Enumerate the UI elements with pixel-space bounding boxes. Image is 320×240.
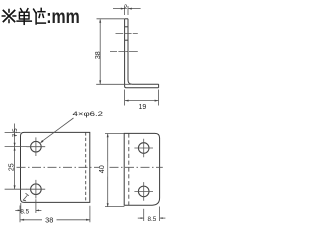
right plate outline [124,133,159,205]
svg-text:4×φ6.2: 4×φ6.2 [73,111,104,118]
corner radius callout [23,195,27,200]
shared horizontal centerline [17,166,163,168]
svg-text:8.5: 8.5 [148,216,157,223]
kome mark ※ [3,11,14,22]
kanji 単 [17,9,31,25]
left plate bend hidden line (dashed) [85,132,87,202]
dimension 38 bottom [20,206,90,223]
dimension 19 (depth) [125,90,159,106]
hole L2 crosshair [27,180,46,199]
svg-text:7.5: 7.5 [12,128,19,137]
side view: hole hidden edge tick upper [125,26,128,28]
svg-text:38: 38 [45,216,53,225]
svg-text:2: 2 [124,4,128,11]
dimension 38 (height) [96,19,131,85]
dimension 8.5 right [138,207,166,222]
svg-text::mm: :mm [46,7,79,28]
hole R2 [138,186,149,197]
hole L1 crosshair [27,137,46,156]
dimension 8.5 left [15,199,41,213]
hole L2 [31,184,42,195]
side view: top cap of vertical leg [125,18,128,20]
svg-text:25: 25 [8,163,15,171]
right plate bend hidden line (dashed) [128,133,130,205]
dimension 7.5 [5,124,27,147]
side view: vertical leg left face + outer corner + bottom edge [125,19,159,88]
svg-text:8.5: 8.5 [20,209,29,216]
dimension 25 [5,147,27,190]
side view: hole hidden edge tick lower [125,39,128,41]
dimension 2 (thickness) [113,6,141,15]
svg-text:40: 40 [97,165,106,173]
hole R1 crosshair [134,139,153,158]
hole L1 [31,141,42,152]
side view: hole centerline A [110,33,138,51]
side view: mid centerline B [110,51,138,53]
hole callout leader 4×φ6.2 [43,118,74,141]
svg-text:19: 19 [139,104,147,111]
dimension 40 [105,133,124,207]
side view: right end cap of horizontal leg [158,84,160,88]
left plate outline [21,132,90,202]
title unit note "※単位:mm" [2,8,45,24]
kanji 位 [34,8,46,24]
hole R2 crosshair [134,182,153,201]
svg-text:38: 38 [95,51,102,59]
side view: vertical leg right face + inner fillet + top surface of horizontal leg [128,19,159,84]
hole R1 [138,143,149,154]
